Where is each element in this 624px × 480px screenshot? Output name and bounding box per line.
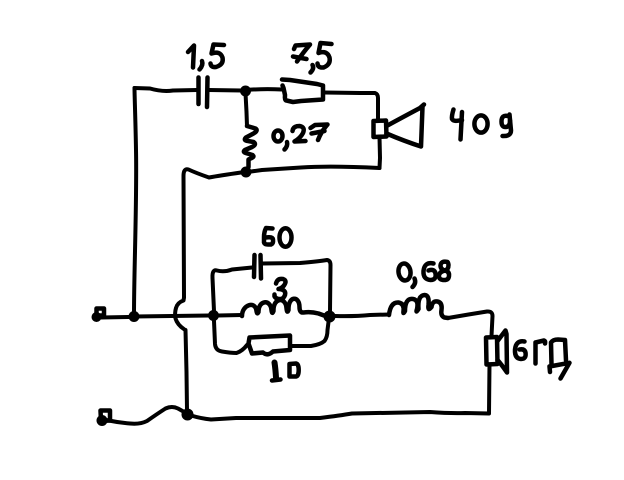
wire node C to node E (main line through crossing) [134, 316, 209, 317]
label 0,68 [397, 262, 449, 287]
node A junction dot [240, 86, 251, 97]
speaker BA1 box [374, 121, 387, 138]
wire node E down to resistor R2 [214, 321, 247, 353]
wire node F to inductor L3 [335, 315, 389, 317]
node B junction dot [241, 167, 252, 178]
wire left vertical from node C up to top corner [134, 88, 136, 314]
wire crossing down to node D [186, 330, 188, 410]
wire L3 to speaker BA2 [448, 311, 493, 336]
wire node D to bottom-right corner [191, 412, 489, 420]
label 3 [274, 279, 285, 299]
wire node E to inductor L2 [218, 313, 242, 318]
wire node E up to capacitor C2 [212, 268, 252, 312]
label 60 [264, 228, 292, 247]
speaker BA2 box [486, 337, 498, 365]
terminal X1 [97, 309, 105, 316]
wire C2 right and down to node F [262, 260, 331, 311]
wire X1 to node C [101, 315, 130, 320]
wire top-section bottom return to node B [251, 167, 380, 172]
wire R2 right up to node F [290, 322, 329, 346]
wire speaker BA2 down to bottom return [487, 365, 492, 414]
inductor L3 0,68 [389, 295, 448, 318]
wire X2 to node D [106, 407, 186, 424]
wire top horizontal to capacitor C1 [135, 88, 198, 91]
inductor L1 0,27 [244, 126, 257, 167]
wire node B left to mid vertical [184, 169, 242, 297]
capacitor C1 plate left [196, 78, 201, 105]
inductor L2 value 3 [242, 299, 324, 316]
wire hop over main line [175, 298, 184, 330]
label 10 [272, 363, 299, 381]
label 7,5 [293, 43, 332, 73]
label 1,5 [188, 45, 224, 70]
label 6ГД [515, 340, 570, 379]
label 0,27 [274, 125, 328, 150]
capacitor C2 plate right [258, 255, 263, 279]
wire R1 to speaker BA1 [324, 93, 378, 121]
wire C1 to node A [209, 88, 243, 93]
wire node A down to inductor L1 [246, 93, 248, 126]
speaker BA1 horn [387, 105, 425, 147]
resistor R1 body [282, 80, 323, 103]
node E junction dot [208, 310, 219, 321]
wire node A to resistor R1 [246, 87, 282, 92]
node F junction dot [324, 311, 336, 323]
capacitor C2 plate left [252, 255, 257, 277]
node C junction dot [129, 311, 140, 322]
node D junction dot [182, 409, 194, 421]
speaker BA2 horn [498, 331, 508, 373]
label 40д [452, 110, 511, 140]
terminal X2 [101, 411, 111, 422]
resistor R2 body [249, 336, 291, 355]
wire speaker BA1 bottom down [378, 137, 383, 168]
capacitor C1 plate right [205, 78, 210, 108]
